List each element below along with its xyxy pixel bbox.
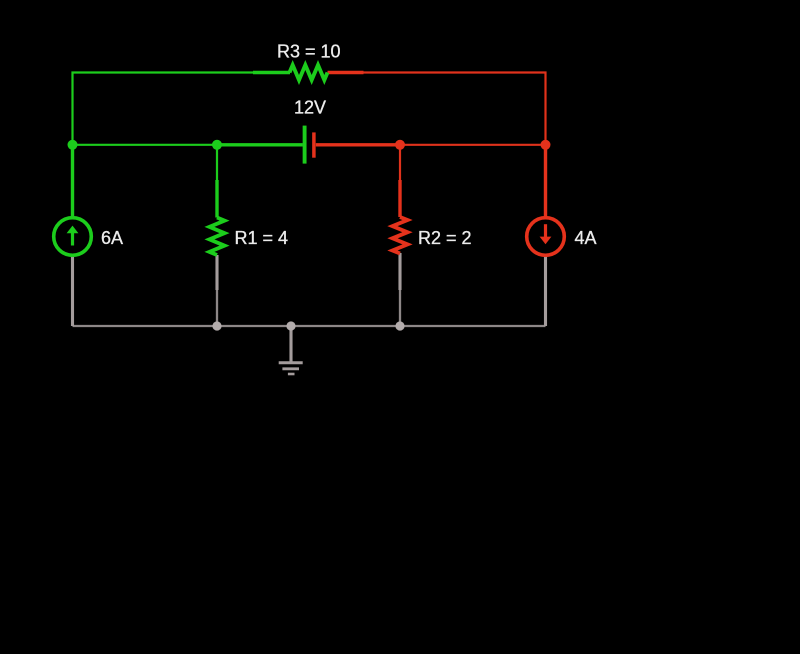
svg-text:R2 = 2: R2 = 2 — [418, 228, 472, 248]
svg-text:12V: 12V — [294, 98, 326, 118]
svg-text:R1 = 4: R1 = 4 — [235, 228, 289, 248]
svg-text:R3 = 10: R3 = 10 — [277, 42, 341, 62]
svg-text:6A: 6A — [101, 228, 123, 248]
svg-text:4A: 4A — [575, 228, 597, 248]
